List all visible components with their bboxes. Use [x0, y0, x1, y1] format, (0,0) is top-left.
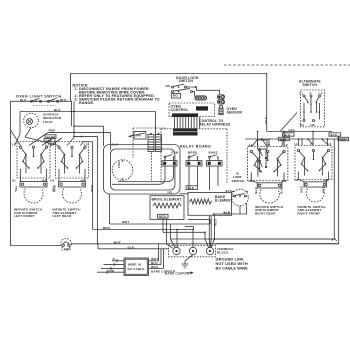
svg-text:WIRE IN: WIRE IN	[128, 262, 141, 266]
notice text	[73, 84, 160, 105]
svg-text:YEL: YEL	[167, 191, 173, 195]
svg-text:WHT: WHT	[151, 257, 158, 261]
svg-text:RELAY BOARD: RELAY BOARD	[180, 145, 211, 149]
terminal block	[169, 245, 235, 256]
svg-text:L2: L2	[284, 143, 288, 147]
svg-text:RED: RED	[299, 185, 303, 193]
svg-text:L1: L1	[294, 142, 298, 146]
svg-text:BX CABLE WIRE: BX CABLE WIRE	[216, 266, 249, 270]
svg-text:PNK: PNK	[52, 184, 56, 192]
svg-text:BLK: BLK	[264, 116, 268, 123]
svg-text:BLK: BLK	[284, 133, 291, 137]
svg-text:RED: RED	[214, 218, 218, 226]
svg-text:FAN: FAN	[117, 161, 121, 168]
svg-text:LAMP: LAMP	[62, 248, 71, 252]
svg-text:RED: RED	[340, 137, 348, 141]
svg-text:LEFT FRONT: LEFT FRONT	[14, 214, 35, 218]
svg-text:L1: L1	[50, 142, 54, 146]
left front infinite switch	[17, 142, 50, 204]
svg-text:BLK: BLK	[54, 108, 61, 112]
svg-text:RED: RED	[321, 185, 325, 193]
oven loop wires	[104, 142, 181, 194]
svg-text:BROIL: BROIL	[188, 151, 198, 155]
svg-text:NOT USED WITH: NOT USED WITH	[216, 262, 248, 266]
control harness connectors	[172, 113, 231, 135]
svg-text:BX CABLE: BX CABLE	[128, 267, 145, 271]
svg-text:RED: RED	[159, 215, 167, 219]
svg-text:RIGHT FRONT: RIGHT FRONT	[298, 212, 321, 216]
connection wires center bottom	[163, 214, 218, 248]
hi limit switch	[232, 172, 249, 214]
door lock switch	[166, 76, 220, 98]
svg-text:H2: H2	[42, 179, 46, 183]
svg-text:SENSOR: SENSOR	[227, 110, 243, 114]
svg-text:P: P	[311, 142, 313, 146]
svg-text:BLK: BLK	[226, 189, 233, 193]
dashed top right boundary	[224, 64, 350, 66]
svg-text:BARE COPPER: BARE COPPER	[165, 271, 190, 275]
bottom buses	[72, 203, 339, 249]
240 component	[129, 132, 147, 140]
oven control box	[169, 103, 215, 117]
relay board right contacts	[249, 140, 268, 172]
svg-text:PNK: PNK	[90, 184, 94, 192]
svg-text:H1: H1	[50, 179, 54, 183]
oven sensor	[219, 105, 242, 114]
svg-text:H2: H2	[324, 178, 328, 182]
svg-text:BLK: BLK	[20, 98, 27, 102]
svg-text:H2: H2	[283, 179, 287, 183]
svg-text:BLK: BLK	[112, 142, 119, 146]
connector 4 pin	[195, 96, 207, 100]
surface indicator light	[24, 113, 62, 128]
svg-text:BAKE: BAKE	[209, 151, 218, 155]
svg-text:SWITCH: SWITCH	[303, 83, 318, 87]
transformer	[148, 133, 162, 152]
svg-text:H1: H1	[12, 179, 16, 183]
notice box frame	[71, 74, 267, 132]
border left	[11, 101, 73, 245]
alternate switch	[281, 79, 325, 131]
svg-text:RED: RED	[49, 129, 57, 133]
relay BROIL	[186, 151, 202, 190]
fan	[112, 160, 133, 181]
svg-text:P: P	[268, 143, 270, 147]
wire in bx cable	[97, 244, 176, 276]
border right doubled	[215, 139, 334, 239]
svg-text:SWITCH: SWITCH	[232, 179, 245, 183]
svg-text:BLK: BLK	[254, 186, 258, 193]
connector pair top	[218, 95, 225, 104]
svg-text:LEFT REAR: LEFT REAR	[53, 214, 72, 218]
svg-text:L1: L1	[12, 142, 16, 146]
svg-text:GROUND LINK: GROUND LINK	[216, 257, 245, 261]
svg-text:L1: L1	[300, 91, 304, 95]
svg-text:H2: H2	[81, 179, 85, 183]
relay FAN	[112, 151, 178, 185]
right rear infinite switch	[248, 147, 288, 204]
broil element	[150, 196, 184, 220]
svg-text:BLOCK: BLOCK	[217, 250, 229, 254]
svg-text:BLK: BLK	[331, 133, 338, 137]
svg-text:H2: H2	[311, 123, 315, 127]
svg-text:BLK: BLK	[60, 98, 67, 102]
svg-text:RELAY HARNESS: RELAY HARNESS	[199, 122, 231, 126]
oven light switch	[16, 95, 67, 106]
svg-text:L2: L2	[328, 142, 332, 146]
svg-text:NC: NC	[166, 84, 171, 88]
misc verticals	[180, 193, 189, 195]
svg-text:BLK: BLK	[188, 186, 195, 190]
svg-text:H1: H1	[295, 178, 299, 182]
svg-text:BLK: BLK	[279, 186, 283, 193]
relay BAKE	[207, 151, 223, 190]
bare copper arrow	[165, 271, 194, 275]
svg-text:L1: L1	[249, 143, 253, 147]
svg-text:SWITCH: SWITCH	[179, 79, 194, 83]
right buses	[245, 116, 349, 146]
svg-text:BROIL ELEMENT: BROIL ELEMENT	[152, 197, 183, 201]
svg-text:RIGHT REAR: RIGHT REAR	[255, 212, 276, 216]
left wiring mesh	[11, 101, 156, 249]
svg-text:L2: L2	[46, 142, 50, 146]
svg-text:CONTROL: CONTROL	[171, 108, 189, 112]
ground link	[182, 255, 249, 271]
svg-text:LIGHT: LIGHT	[43, 120, 53, 124]
dashed oven boundary	[133, 127, 166, 129]
left rear infinite switch	[56, 142, 89, 204]
svg-text:NO: NO	[173, 93, 178, 97]
svg-text:YEL: YEL	[14, 185, 18, 191]
svg-text:H1: H1	[249, 179, 253, 183]
svg-text:L2: L2	[84, 142, 88, 146]
svg-text:ELEMENT: ELEMENT	[215, 199, 233, 203]
svg-text:H1: H1	[300, 123, 304, 127]
svg-text:RANGE.: RANGE.	[79, 101, 94, 105]
right front infinite switch	[295, 146, 332, 203]
lamp	[61, 239, 72, 250]
bake element	[167, 186, 233, 216]
